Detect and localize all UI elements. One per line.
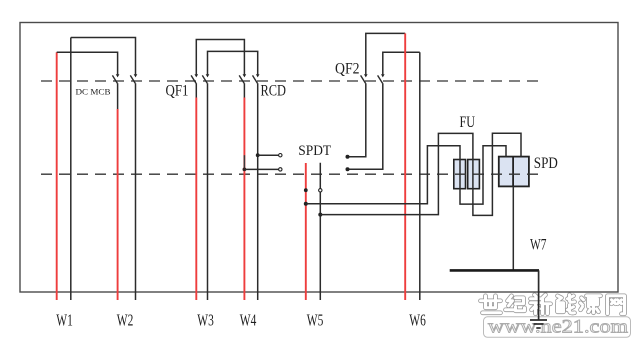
wire W6 black conductor — [419, 52, 421, 300]
wire W5 red conductor — [305, 163, 307, 300]
breaker QF2 pole1 — [361, 74, 368, 83]
dashed bus line 1 — [41, 80, 539, 82]
terminal socket on W5 black — [319, 189, 322, 192]
wire SPDT pole1 stub — [258, 154, 279, 156]
node junction on W5 red — [304, 202, 308, 206]
breaker QF2 pole2 — [378, 74, 385, 83]
svg-text:W1: W1 — [56, 310, 73, 329]
wire W3 red conductor — [195, 83, 197, 300]
earth bus bar — [450, 269, 539, 272]
wire SPDT pole2 stub — [244, 168, 278, 170]
svg-text:W6: W6 — [409, 310, 426, 329]
terminal plug on W5 red — [304, 188, 308, 192]
wire W3 black conductor — [207, 83, 209, 300]
breaker QF1 pole2 — [202, 74, 209, 83]
frame border — [20, 23, 618, 293]
terminal SPDT pole1 — [279, 154, 282, 157]
fuse FU2 body — [468, 160, 480, 189]
wire W5 black conductor — [319, 163, 321, 300]
svg-text:www.ne21.com: www.ne21.com — [488, 316, 628, 337]
wire W5 red to FU1 to SPD left — [306, 146, 506, 204]
wire W6 red conductor — [404, 33, 406, 300]
wire loop W1 black to MCB pole2 — [71, 38, 136, 75]
SPD body — [499, 157, 529, 187]
svg-text:QF2: QF2 — [335, 61, 360, 78]
svg-text:W4: W4 — [240, 310, 256, 329]
svg-text:W3: W3 — [197, 310, 214, 329]
svg-text:W5: W5 — [307, 310, 324, 329]
ground symbol — [530, 320, 547, 328]
node junction on W4 black — [256, 153, 260, 157]
wire W1 black conductor — [70, 38, 72, 301]
breaker RCD pole2 — [253, 74, 260, 83]
wire QF2 pole2 output to SPDT throw2 — [348, 83, 383, 169]
wire loop QF1 pole2 to RCD pole2 — [208, 51, 258, 74]
breaker DC MCB pole2 — [130, 74, 137, 83]
wire W4 red conductor — [243, 83, 245, 300]
node junction on W5 black — [318, 213, 322, 217]
svg-text:RCD: RCD — [261, 82, 287, 99]
wire W5 black to FU2 to SPD right — [320, 133, 521, 215]
breaker DC MCB pole1 — [112, 74, 119, 83]
svg-text:W2: W2 — [117, 310, 134, 329]
watermark line2 box www.ne21.com — [484, 316, 631, 337]
wire loop QF1 pole1 to RCD pole1 — [196, 40, 244, 75]
svg-text:SPDT: SPDT — [298, 143, 331, 159]
wire loop QF2 pole2 to W6 black — [383, 52, 420, 74]
wire QF2 pole1 output to SPDT throw1 — [348, 83, 366, 157]
wire W2 red conductor (black above joint) — [117, 83, 119, 300]
watermark line1 "世纪新能源网" — [481, 295, 625, 314]
svg-text:QF1: QF1 — [166, 82, 189, 99]
wire W4 black conductor — [257, 83, 259, 300]
terminal SPDT pole2 — [279, 168, 282, 171]
svg-text:FU: FU — [460, 114, 476, 131]
dashed bus line 2 — [41, 173, 540, 175]
fuse FU1 body — [454, 160, 466, 189]
wire W1 red conductor — [56, 52, 58, 300]
wire W7 earth conductor — [538, 270, 540, 319]
wire SPD earth output — [512, 186, 514, 270]
wire loop QF2 pole1 to W6 red — [366, 33, 405, 74]
svg-text:SPD: SPD — [534, 155, 558, 172]
breaker QF1 pole1 — [191, 74, 198, 83]
node SPDT throw1 — [346, 155, 350, 159]
node SPDT throw2 — [346, 167, 350, 171]
svg-text:DC MCB: DC MCB — [76, 86, 111, 96]
wire loop W1 red to MCB pole1 — [57, 52, 118, 74]
node junction on W4 red — [243, 168, 247, 172]
svg-text:W7: W7 — [530, 237, 547, 254]
breaker RCD pole1 — [239, 74, 246, 83]
wire W2 black conductor — [135, 83, 137, 300]
